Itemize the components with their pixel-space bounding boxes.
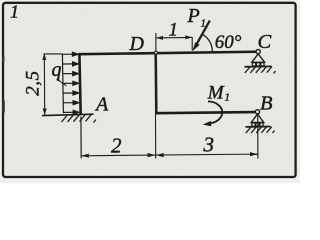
support C triangle — [252, 54, 265, 63]
dimension 1 arrow right — [185, 35, 192, 39]
support C hatching — [245, 67, 276, 74]
svg-text:1: 1 — [169, 20, 179, 41]
border smudge left — [2, 100, 5, 113]
support B pin circle — [255, 110, 259, 114]
dimension 1 extension right — [191, 37, 193, 51]
border smudge left2 — [2, 55, 4, 63]
svg-text:P: P — [187, 5, 200, 27]
support B triangle — [251, 114, 264, 123]
force P1 arrowhead — [192, 42, 199, 51]
support A hatching — [62, 115, 97, 123]
dimension ext below middle column — [155, 114, 157, 159]
paper background inside frame — [2, 2, 297, 178]
dimension 1 arrow left — [156, 36, 163, 40]
border frame — [3, 3, 296, 177]
svg-text:2: 2 — [111, 134, 122, 158]
wire: bottom beam to B — [155, 112, 257, 113]
support C rollers — [252, 63, 256, 67]
paper texture — [0, 0, 1, 1]
distributed load q arrows — [63, 52, 80, 114]
dimension 1 line — [156, 36, 192, 39]
dimension 2,5 arrow down — [43, 109, 47, 115]
dimension 2,5 extension top — [44, 53, 63, 55]
q leader line — [57, 79, 67, 86]
wire: left column AD — [79, 54, 80, 115]
svg-text:1: 1 — [225, 92, 231, 104]
dimension ext below B — [257, 113, 259, 159]
support C ground line — [245, 65, 272, 67]
support C pin circle — [256, 50, 260, 54]
dimension 1 extension left — [155, 33, 157, 52]
dimension 2 arrow left — [81, 154, 89, 158]
node D pin dot — [154, 51, 157, 54]
moment M1 arrowhead — [203, 121, 212, 126]
svg-text:1: 1 — [10, 2, 19, 22]
svg-text:1: 1 — [201, 18, 207, 30]
dimension 2 arrow right — [148, 153, 156, 157]
distributed load q tail line — [62, 54, 63, 113]
svg-text:q: q — [52, 59, 62, 81]
svg-text:B: B — [260, 92, 273, 114]
support B hatching — [246, 127, 275, 133]
svg-text:2,5: 2,5 — [23, 70, 44, 96]
svg-text:A: A — [94, 93, 109, 115]
moment M1 arc — [208, 101, 222, 123]
wire: top beam D-C — [78, 52, 258, 55]
support A ground line — [42, 114, 94, 115]
dimension 3 arrow right — [250, 152, 258, 156]
angle 60 arc — [203, 34, 213, 51]
paper background outside frame — [0, 0, 300, 183]
svg-text:M: M — [207, 82, 225, 103]
svg-text:60°: 60° — [215, 32, 242, 53]
wire: middle column under D — [154, 52, 157, 113]
svg-text:D: D — [129, 33, 145, 55]
dimension ext below A — [80, 117, 82, 159]
support B rollers — [252, 123, 256, 127]
svg-text:3: 3 — [203, 133, 215, 157]
bottom dimension line — [81, 154, 258, 156]
dimension 3 arrow left — [156, 153, 164, 157]
support B ground line — [246, 126, 271, 128]
force P1 line — [195, 21, 210, 47]
dimension 2,5 line — [43, 54, 45, 115]
svg-text:C: C — [258, 31, 272, 53]
dimension 2,5 arrow up — [42, 54, 46, 60]
